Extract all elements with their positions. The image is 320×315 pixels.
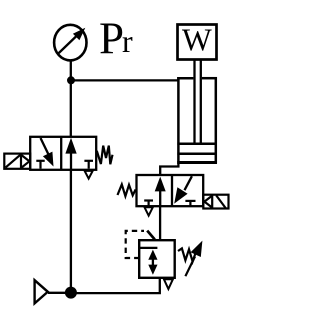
valve V2 right position blocked port T — [185, 201, 195, 206]
pump source triangle — [35, 280, 48, 303]
reducing valve R1 drain triangle — [164, 279, 173, 289]
valve V1 right position blocked port T — [84, 161, 93, 169]
pressure gauge G1 body — [54, 25, 86, 61]
valve V2 body — [137, 175, 204, 206]
svg-text:r: r — [122, 23, 133, 59]
svg-text:P: P — [99, 14, 124, 64]
pressure gauge G1 needle — [58, 28, 85, 54]
valve V1 solenoid — [4, 154, 30, 169]
svg-text:W: W — [182, 23, 212, 58]
wire valve V2 to reducing valve R1 — [159, 206, 161, 240]
reducing valve R1 adjustable spring — [178, 241, 202, 277]
valve V2 left position blocked port T — [144, 201, 153, 206]
valve V2 return spring — [118, 184, 136, 196]
valve V1 exhaust triangle — [85, 171, 93, 179]
valve V1 left position blocked port T — [36, 161, 44, 169]
reducing valve R1 pilot line (dashed) — [126, 231, 155, 258]
valve V2 solenoid — [203, 195, 228, 209]
wire gauge to node A — [70, 61, 72, 81]
valve V2 exhaust triangle — [145, 207, 153, 215]
valve V2 right position flow arrow — [174, 176, 192, 203]
reducing valve R1 flow double arrow — [140, 248, 158, 275]
weight W box — [178, 25, 217, 60]
node B junction dot — [65, 287, 77, 299]
valve V1 left position flow arrow — [41, 138, 54, 167]
reducing valve R1 body — [139, 240, 175, 278]
wire valve V1 to node B — [70, 170, 72, 292]
cylinder piston rod — [195, 60, 201, 144]
wire node A to cylinder port — [71, 79, 178, 81]
node A junction dot — [67, 76, 75, 84]
cylinder C1 body — [177, 77, 217, 164]
valve V2 left position flow arrow (pass-through) — [155, 177, 166, 207]
valve V1 right position flow arrow (pass-through) — [65, 138, 76, 170]
wire cylinder cap-end to valve V2 — [160, 163, 178, 176]
wire pump to node B — [48, 292, 66, 294]
wire R1 drain to tank line — [71, 278, 160, 293]
wire node A to valve V1 — [70, 81, 72, 138]
valve V1 return spring — [97, 146, 113, 165]
valve V1 body — [30, 137, 96, 170]
cylinder piston — [177, 144, 216, 154]
